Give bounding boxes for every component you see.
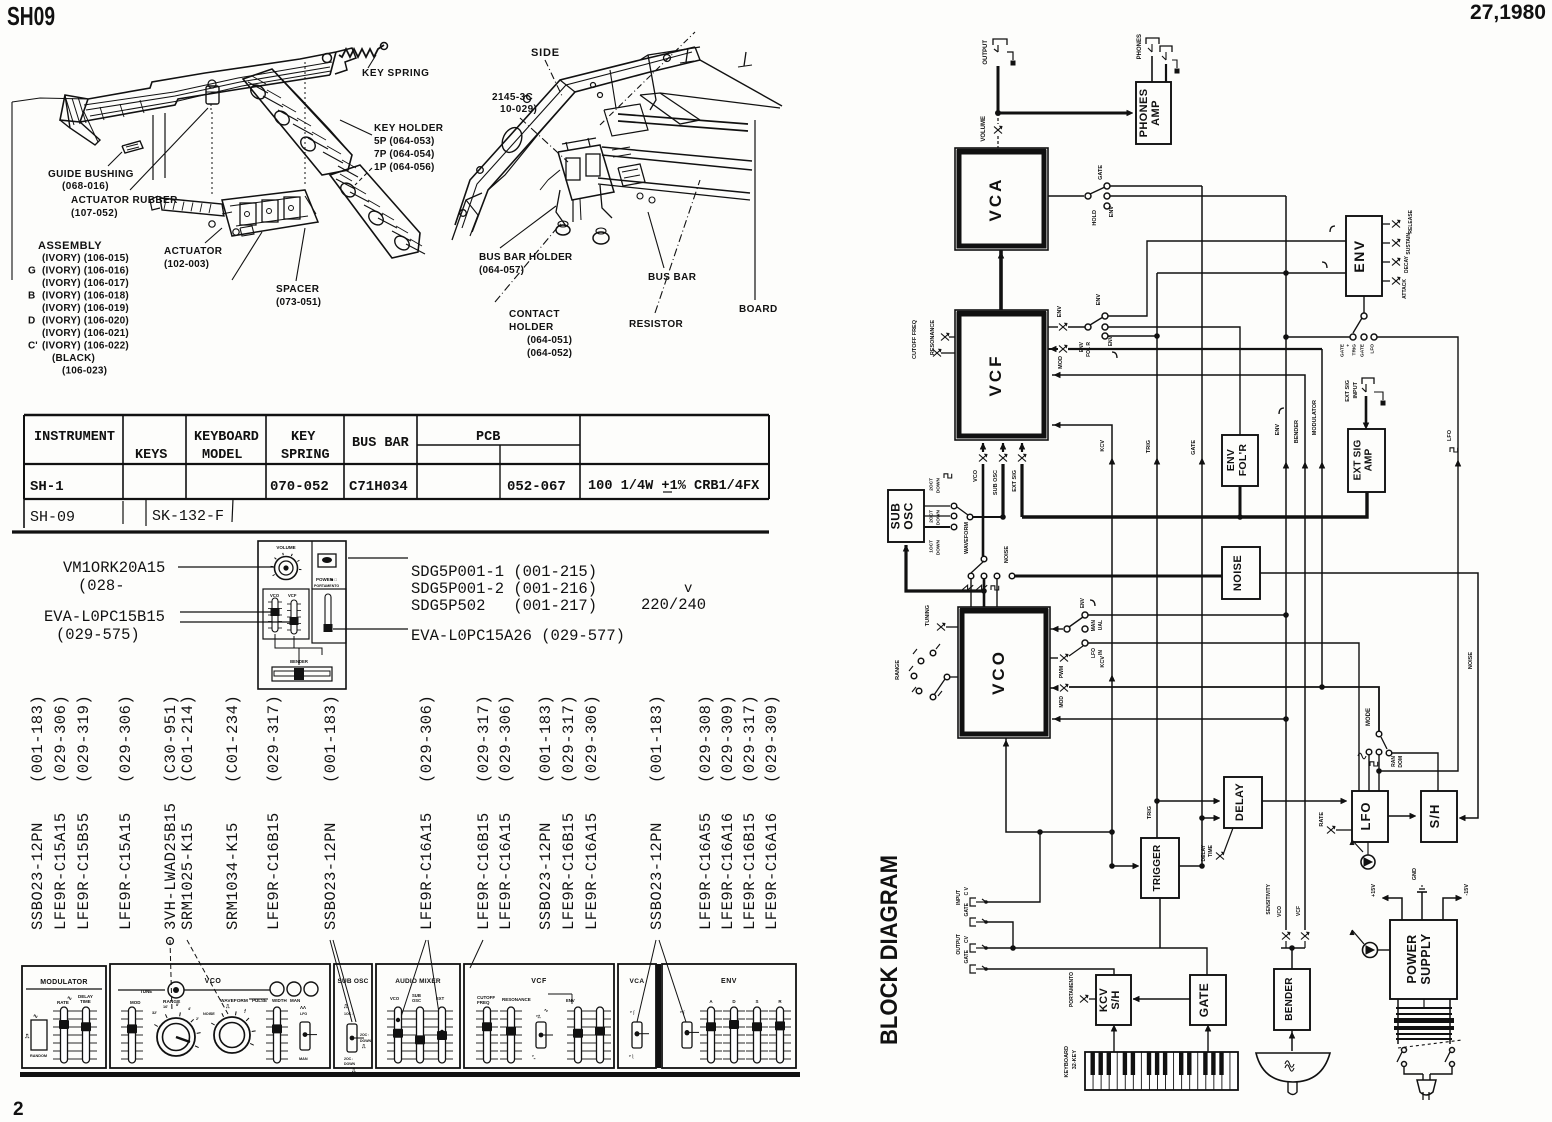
svg-text:SUB OSC: SUB OSC	[337, 978, 368, 985]
block GATE	[1190, 975, 1226, 1025]
svg-text:C V: C V	[964, 886, 970, 895]
svg-text:OUTPUT: OUTPUT	[956, 934, 962, 955]
svg-text:(IVORY) (106-019): (IVORY) (106-019)	[42, 303, 129, 314]
svg-text:BLOCK DIAGRAM: BLOCK DIAGRAM	[876, 855, 903, 1045]
wire GATE to KCV S/H	[1133, 998, 1190, 1000]
svg-text:⨍: ⨍	[244, 1008, 246, 1013]
switch SUB OSC octave	[924, 505, 950, 507]
svg-text:DOWN: DOWN	[360, 1039, 372, 1043]
svg-text:2145-3C: 2145-3C	[492, 92, 533, 103]
svg-text:LFO: LFO	[1091, 648, 1097, 658]
svg-text:TIME: TIME	[80, 999, 91, 1004]
power plug	[1404, 1066, 1423, 1074]
wire env contact to env trunk routing into VCO	[1088, 614, 1286, 616]
svg-text:(073-051): (073-051)	[276, 297, 321, 308]
svg-text:NOISE: NOISE	[1232, 555, 1244, 591]
svg-text:MAN: MAN	[290, 998, 300, 1003]
svg-text:3VH-LWAD25B15: 3VH-LWAD25B15	[162, 803, 180, 930]
wire GATE trunk	[1201, 186, 1203, 866]
svg-text:VCO: VCO	[270, 593, 280, 598]
svg-text:EXT: EXT	[436, 996, 445, 1001]
power switch	[318, 554, 336, 567]
leader bus bar holder	[500, 206, 556, 248]
svg-text:CUTOFF FREQ: CUTOFF FREQ	[912, 319, 918, 359]
block PHONES AMP	[1136, 82, 1171, 144]
svg-text:2: 2	[13, 1099, 24, 1120]
svg-text:VCF: VCF	[288, 593, 297, 598]
svg-text:RESONANCE: RESONANCE	[502, 997, 531, 1002]
svg-text:NOISE: NOISE	[1004, 546, 1010, 563]
svg-text:SENSITIVITY: SENSITIVITY	[1266, 883, 1272, 914]
svg-text:RANDOM: RANDOM	[30, 1054, 47, 1058]
svg-text:SUB OSC: SUB OSC	[993, 470, 999, 495]
svg-text:RESISTOR: RESISTOR	[629, 319, 684, 330]
svg-text:KEY HOLDER: KEY HOLDER	[374, 123, 444, 134]
svg-text:TUNE: TUNE	[140, 989, 152, 994]
svg-text:220/240: 220/240	[641, 596, 706, 614]
pots ENV attack/decay/sustain/release	[1382, 223, 1390, 225]
key right hook and hole	[335, 48, 356, 74]
svg-text:(064-057): (064-057)	[479, 265, 524, 276]
svg-text:S: S	[755, 999, 758, 1004]
svg-text:FREQ: FREQ	[477, 1000, 490, 1005]
svg-text:TUNING: TUNING	[925, 605, 931, 626]
PCB sub header	[417, 444, 580, 446]
front panel outline	[22, 966, 106, 1068]
svg-text:VOLUME: VOLUME	[981, 116, 987, 142]
svg-text:32': 32'	[152, 1011, 157, 1015]
svg-text:(029-317): (029-317)	[741, 695, 759, 783]
wire subosc switch to trunk	[973, 516, 1003, 518]
bender wheel	[1256, 1053, 1330, 1082]
wire VCF to VCA	[999, 250, 1003, 310]
svg-text:INPUT: INPUT	[1353, 381, 1359, 398]
wire BENDER trunk	[1052, 375, 1305, 930]
svg-text:SSBO23-12PN: SSBO23-12PN	[322, 822, 340, 930]
svg-text:SSBO23-12PN: SSBO23-12PN	[29, 822, 47, 930]
block ENV FOLR	[1222, 435, 1258, 486]
jack PHONES 2	[1160, 46, 1172, 52]
svg-text:INPUT: INPUT	[956, 890, 962, 905]
wire keyboard to KCV S/H	[1113, 1027, 1115, 1052]
svg-text:MODULATOR: MODULATOR	[40, 979, 88, 986]
power transformer	[1397, 999, 1399, 1044]
thick separator line	[12, 530, 769, 533]
actuator rubber part	[206, 86, 219, 104]
svg-text:∿: ∿	[33, 1014, 38, 1020]
svg-text:∿: ∿	[544, 1008, 548, 1014]
svg-text:SDG5P001-2 (001-216): SDG5P001-2 (001-216)	[411, 580, 597, 598]
block S/H	[1421, 791, 1457, 842]
switch env gate+trig/gate/lfo	[1363, 296, 1365, 313]
svg-text:BUS BAR: BUS BAR	[352, 436, 410, 451]
svg-text:10-029): 10-029)	[500, 104, 537, 115]
svg-text:BENDER: BENDER	[1284, 977, 1295, 1021]
block VCO	[958, 607, 1050, 738]
svg-text:BUS BAR: BUS BAR	[648, 272, 697, 283]
svg-text:VCF: VCF	[531, 978, 547, 985]
guide support under key	[152, 115, 154, 180]
svg-text:(029-308): (029-308)	[697, 695, 715, 783]
svg-text:(001-183): (001-183)	[648, 695, 666, 783]
svg-text:SH-09: SH-09	[30, 509, 75, 526]
svg-text:ΛΛ: ΛΛ	[300, 1005, 306, 1010]
svg-text:(C01-214): (C01-214)	[179, 695, 197, 783]
svg-text:ENV: ENV	[721, 978, 737, 985]
svg-text:RATE: RATE	[1319, 812, 1325, 827]
svg-text:(001-183): (001-183)	[322, 695, 340, 783]
svg-text:NOISE: NOISE	[203, 1012, 215, 1016]
svg-text:ENV: ENV	[1351, 239, 1367, 272]
svg-text:MAN: MAN	[299, 1057, 308, 1061]
leader contact holder	[495, 222, 562, 302]
svg-text:MODEL: MODEL	[202, 448, 243, 463]
block DELAY	[1224, 777, 1262, 828]
svg-text:SSBO23-12PN: SSBO23-12PN	[537, 822, 555, 930]
svg-text:LFE9R-C16A15: LFE9R-C16A15	[583, 812, 601, 930]
svg-text:OSC: OSC	[902, 502, 916, 530]
svg-text:KEYBOARD: KEYBOARD	[194, 430, 259, 445]
svg-text:VCF: VCF	[986, 354, 1005, 397]
thick audio bus to EXT SIG AMP	[1022, 492, 1367, 517]
wire trig trunk to ENV box input 2	[1157, 272, 1346, 274]
svg-text:v: v	[684, 581, 692, 597]
svg-text:WIDTH: WIDTH	[272, 998, 287, 1003]
svg-text:LFE9R-C16B15: LFE9R-C16B15	[560, 812, 578, 930]
block NOISE	[1222, 547, 1260, 599]
svg-text:ENV: ENV	[1225, 449, 1237, 472]
power supply GND	[1421, 892, 1423, 920]
svg-text:(001-183): (001-183)	[29, 695, 47, 783]
svg-text:S/H: S/H	[1110, 990, 1122, 1009]
panel bottom heavy rule	[20, 1072, 800, 1077]
svg-text:EVA-L0PC15A26 (029-577): EVA-L0PC15A26 (029-577)	[411, 627, 625, 645]
svg-text:SUPPLY: SUPPLY	[1419, 933, 1433, 985]
svg-text:⎍: ⎍	[225, 1004, 230, 1010]
svg-text:POWER: POWER	[1405, 934, 1419, 983]
svg-text:(106-023): (106-023)	[62, 366, 107, 377]
block VCF	[955, 310, 1048, 440]
svg-text:GATE: GATE	[1197, 983, 1211, 1017]
svg-text:(029-575): (029-575)	[56, 626, 140, 644]
power supply +15V output	[1384, 898, 1402, 920]
svg-text:AMP: AMP	[1150, 100, 1162, 126]
svg-text:C': C'	[28, 341, 38, 352]
svg-text:(029-306): (029-306)	[418, 695, 436, 783]
svg-text:LFO: LFO	[1447, 429, 1453, 441]
svg-text:2OCT: 2OCT	[929, 478, 935, 491]
svg-text:MODE: MODE	[1366, 708, 1372, 726]
wire keyboard to GATE	[1207, 1027, 1209, 1052]
svg-text:PORTAMENTO: PORTAMENTO	[314, 584, 339, 588]
svg-text:LFE9R-C16B15: LFE9R-C16B15	[265, 812, 283, 930]
guide bushing part	[122, 141, 143, 153]
svg-text:(029-306): (029-306)	[497, 695, 515, 783]
bus bars	[618, 114, 748, 124]
svg-text:VCO: VCO	[1277, 906, 1283, 917]
block BENDER	[1274, 969, 1310, 1030]
svg-text:LFE9R-C15B55: LFE9R-C15B55	[75, 812, 93, 930]
svg-text:FOL'R: FOL'R	[1237, 444, 1249, 477]
svg-text:ⱽ⎱: ⱽ⎱	[628, 1053, 635, 1059]
wire input gate jack	[986, 922, 1013, 948]
svg-text:LFE9R-C16A16: LFE9R-C16A16	[719, 812, 737, 930]
parts table frame	[24, 414, 769, 417]
svg-text:∿: ∿	[67, 996, 72, 1002]
svg-text:ⱽ⎍: ⱽ⎍	[535, 1014, 541, 1019]
svg-text:(064-051): (064-051)	[527, 335, 572, 346]
VCA/ENV divider bar	[656, 964, 661, 1068]
wire lfo contact into LFO top	[1088, 643, 1359, 791]
svg-text:■ □: ■ □	[331, 577, 338, 582]
svg-text:(IVORY) (106-017): (IVORY) (106-017)	[42, 278, 129, 289]
svg-text:SDG5P502 (001-217): SDG5P502 (001-217)	[411, 597, 597, 615]
wire VCA gate contact to GATE trunk	[1110, 185, 1202, 187]
svg-text:TRIG: TRIG	[1147, 806, 1153, 819]
wire to phones amp	[998, 112, 1128, 115]
svg-text:LFO: LFO	[1370, 344, 1376, 354]
svg-text:(IVORY) (106-018): (IVORY) (106-018)	[42, 291, 129, 302]
key spring coil	[339, 45, 384, 57]
svg-text:SRM1025-K15: SRM1025-K15	[179, 822, 197, 930]
svg-text:DOM: DOM	[1398, 756, 1404, 768]
svg-text:27,1980: 27,1980	[1470, 1, 1546, 24]
svg-text:PWM: PWM	[1059, 666, 1065, 678]
svg-text:SH-1: SH-1	[30, 479, 64, 495]
wire ext sig jack into amp	[1365, 396, 1368, 427]
svg-text:BOARD: BOARD	[739, 304, 778, 315]
svg-text:DOWN: DOWN	[936, 477, 942, 493]
svg-text:EXT SIG: EXT SIG	[1012, 470, 1018, 492]
dashed screw line	[600, 32, 695, 125]
svg-text:KEY SPRING: KEY SPRING	[362, 68, 430, 79]
key holder ribbed strip lower	[330, 165, 420, 258]
board edge	[700, 60, 782, 106]
side frame rail	[455, 47, 695, 225]
wire mode common to S/H	[1392, 753, 1438, 791]
wires mode contacts into LFO	[1368, 755, 1370, 791]
dashed guide lines	[211, 112, 213, 195]
svg-text:VCA: VCA	[630, 978, 645, 985]
svg-text:4': 4'	[188, 1007, 191, 1011]
svg-text:2OC↓: 2OC↓	[344, 1057, 353, 1061]
svg-text:LFE9R-C16A15: LFE9R-C16A15	[418, 812, 436, 930]
svg-text:HOLD: HOLD	[1092, 210, 1098, 226]
wire output jack to volume node	[997, 66, 1000, 113]
small resistor parts	[618, 164, 645, 186]
svg-text:GND: GND	[1412, 868, 1418, 880]
svg-text:AMP: AMP	[1364, 448, 1375, 471]
svg-text:LFE9R-C15A15: LFE9R-C15A15	[52, 812, 70, 930]
left reference line	[11, 102, 13, 280]
wire wheel to BENDER box	[1291, 1030, 1293, 1051]
svg-text:C71H034: C71H034	[349, 479, 408, 495]
svg-text:VCO: VCO	[205, 978, 222, 985]
svg-text:KEYS: KEYS	[135, 448, 167, 463]
svg-text:B: B	[28, 291, 35, 302]
svg-text:GATE: GATE	[964, 949, 970, 963]
svg-text:ENV: ENV	[1109, 206, 1115, 218]
svg-text:EXT SIG: EXT SIG	[1353, 440, 1364, 481]
svg-text:ENV: ENV	[566, 998, 575, 1003]
svg-text:MAN: MAN	[1091, 620, 1097, 632]
svg-text:LFE9R-C16B15: LFE9R-C16B15	[741, 812, 759, 930]
wire TRIG trunk	[1156, 273, 1158, 838]
block POWER SUPPLY	[1390, 920, 1457, 999]
key holder ribbed strip upper	[243, 69, 352, 175]
modulator sliders	[61, 1007, 68, 1063]
svg-text:(C01-234): (C01-234)	[224, 695, 242, 783]
actuator assembly cluster	[222, 190, 318, 236]
svg-text:32-KEY: 32-KEY	[1072, 1050, 1078, 1070]
wire LFO to S/H	[1388, 815, 1414, 817]
svg-text:DOWN: DOWN	[936, 509, 942, 525]
small panel drawing	[258, 541, 346, 689]
svg-text:KEYBOARD: KEYBOARD	[1064, 1046, 1070, 1078]
frame top bar	[640, 47, 700, 60]
wire VCO bottom KCV input	[1006, 738, 1112, 832]
switch VCO mod source (env/manual/lfo)	[1050, 628, 1063, 630]
svg-text:SUSTAIN: SUSTAIN	[1406, 233, 1412, 255]
label EVA-L0PC15A26	[333, 628, 408, 630]
block EXT SIG AMP	[1348, 429, 1385, 492]
svg-text:(028-: (028-	[78, 577, 125, 595]
wire modulator line to LFO mode switch	[1069, 687, 1379, 731]
wire env folr contact to ENV FOLR box	[1108, 327, 1240, 435]
volume knob	[275, 557, 298, 580]
svg-text:SIDE: SIDE	[531, 47, 560, 59]
svg-text:SUB: SUB	[888, 503, 902, 530]
contact strip	[160, 198, 224, 216]
svg-text:ENV: ENV	[1096, 294, 1102, 306]
svg-text:DECAY: DECAY	[1404, 255, 1410, 273]
svg-text:(C30-951): (C30-951)	[162, 695, 180, 783]
svg-text:(029-309): (029-309)	[719, 695, 737, 783]
wires from sliders	[275, 634, 322, 655]
svg-text:⎍: ⎍	[361, 1044, 366, 1050]
tuning sliders sub panel	[263, 589, 309, 639]
svg-text:AUDIO MIXER: AUDIO MIXER	[395, 978, 441, 985]
table row SH-09	[23, 499, 25, 528]
svg-text:DELAY: DELAY	[1234, 783, 1246, 822]
svg-text:PHONES: PHONES	[1138, 89, 1150, 138]
LED power indicator	[1363, 943, 1378, 958]
svg-text:GATE: GATE	[1340, 343, 1346, 357]
svg-text:+: +	[1347, 344, 1352, 347]
svg-text:OSC: OSC	[412, 998, 421, 1003]
tune trimmer	[118, 989, 165, 991]
svg-text:WAVEFORM: WAVEFORM	[220, 998, 248, 1004]
wire noise box to S/H	[1260, 573, 1478, 818]
svg-text:LFE9R-C16B15: LFE9R-C16B15	[475, 812, 493, 930]
svg-text:LFE9R-C16A15: LFE9R-C16A15	[497, 812, 515, 930]
pot VCO MOD	[1050, 687, 1058, 689]
svg-text:+15V: +15V	[1371, 884, 1377, 897]
wire TRIGGER out to gate trunk	[1179, 865, 1202, 867]
svg-text:EVA-L0PC15B15: EVA-L0PC15B15	[44, 608, 165, 626]
svg-text:HOLDER: HOLDER	[509, 322, 554, 333]
svg-text:1P (064-056): 1P (064-056)	[374, 162, 435, 173]
svg-text:PORTAMENTO: PORTAMENTO	[1069, 972, 1075, 1007]
svg-text:TRIGGER: TRIGGER	[1152, 844, 1163, 892]
switch VCA mode (gate/hold/env)	[1048, 195, 1084, 197]
wire LFO out to trig/gate/lfo switch	[1376, 768, 1382, 774]
wire into SUB OSC from VCO bus	[906, 545, 984, 591]
svg-text:TIME: TIME	[1208, 844, 1214, 857]
leader lines from part labels to panel	[170, 940, 172, 1012]
svg-text:VCF: VCF	[1296, 906, 1302, 916]
wire ENV FOLR output bottom	[1239, 486, 1242, 517]
jack OUTPUT	[993, 39, 1007, 45]
svg-text:ACTUATOR RUBBER: ACTUATOR RUBBER	[71, 195, 178, 206]
svg-text:16': 16'	[163, 1005, 168, 1009]
svg-text:PHONES: PHONES	[1137, 34, 1143, 59]
wire BENDER box up to sensitivity pots	[1291, 948, 1293, 969]
svg-text:(068-016): (068-016)	[62, 181, 109, 192]
svg-text:VCO: VCO	[989, 649, 1008, 695]
svg-text:S/H: S/H	[1427, 804, 1442, 829]
svg-text:(001-183): (001-183)	[537, 695, 555, 783]
svg-text:2OCT: 2OCT	[929, 510, 935, 523]
block SUB OSC	[888, 490, 924, 542]
node volume junction	[995, 110, 1001, 116]
svg-text:052-067: 052-067	[507, 479, 566, 495]
svg-text:ASSEMBLY: ASSEMBLY	[38, 240, 102, 252]
svg-text:RELEASE: RELEASE	[1408, 209, 1414, 233]
svg-text:NOISE: NOISE	[1468, 652, 1474, 669]
svg-text:(107-052): (107-052)	[71, 208, 118, 219]
svg-text:VCO: VCO	[973, 469, 979, 482]
wire third contact to trig trunk	[1108, 335, 1157, 337]
svg-text:7P (064-054): 7P (064-054)	[374, 149, 435, 160]
svg-text:BENDER: BENDER	[1294, 420, 1300, 443]
svg-text:100 1/4W +1% CRB1/4FX: 100 1/4W +1% CRB1/4FX	[588, 479, 760, 494]
portamento slider panel	[312, 589, 346, 643]
svg-text:GATE: GATE	[964, 902, 970, 916]
svg-text:(IVORY) (106-020): (IVORY) (106-020)	[42, 316, 129, 327]
svg-text:SRM1034-K15: SRM1034-K15	[224, 822, 242, 930]
svg-text:8': 8'	[176, 1003, 179, 1007]
labels SDG5P001	[348, 557, 408, 559]
svg-text:⎍: ⎍	[343, 1004, 348, 1010]
svg-text:(IVORY) (106-021): (IVORY) (106-021)	[42, 328, 129, 339]
svg-text:UAL: UAL	[1098, 620, 1104, 630]
svg-text:CONTACT: CONTACT	[509, 309, 560, 320]
VCF input pots VCO/SUBOSC/EXTSIG	[982, 443, 984, 452]
svg-text:(029-317): (029-317)	[475, 695, 493, 783]
svg-text:ENV: ENV	[1079, 341, 1085, 352]
svg-text:CV: CV	[964, 935, 970, 943]
wires phones jacks to amp	[1151, 56, 1153, 82]
pot VCF MOD + modulator wire	[1048, 348, 1058, 350]
mid plate	[640, 93, 700, 124]
pot PWM	[1050, 657, 1058, 659]
jack PHONES 1	[1146, 38, 1159, 44]
wire output cv jack to KCV S/H box	[986, 969, 1114, 975]
svg-text:LFE9R-C16A55: LFE9R-C16A55	[697, 812, 715, 930]
svg-text:(029-317): (029-317)	[560, 695, 578, 783]
svg-text:EXT SIG: EXT SIG	[1345, 380, 1351, 402]
svg-text:(029-309): (029-309)	[763, 695, 781, 783]
svg-text:KCV: KCV	[1098, 988, 1110, 1012]
svg-text:INSTRUMENT: INSTRUMENT	[34, 430, 115, 445]
wire MODULATOR trunk	[1321, 349, 1323, 687]
wire DELAY out to LFO	[1262, 800, 1345, 802]
wire env sw to ENV box input 1	[1108, 241, 1346, 316]
svg-text:WAVEFORM: WAVEFORM	[964, 522, 970, 554]
svg-text:IN: IN	[1098, 650, 1104, 655]
svg-text:(064-052): (064-052)	[527, 348, 572, 359]
